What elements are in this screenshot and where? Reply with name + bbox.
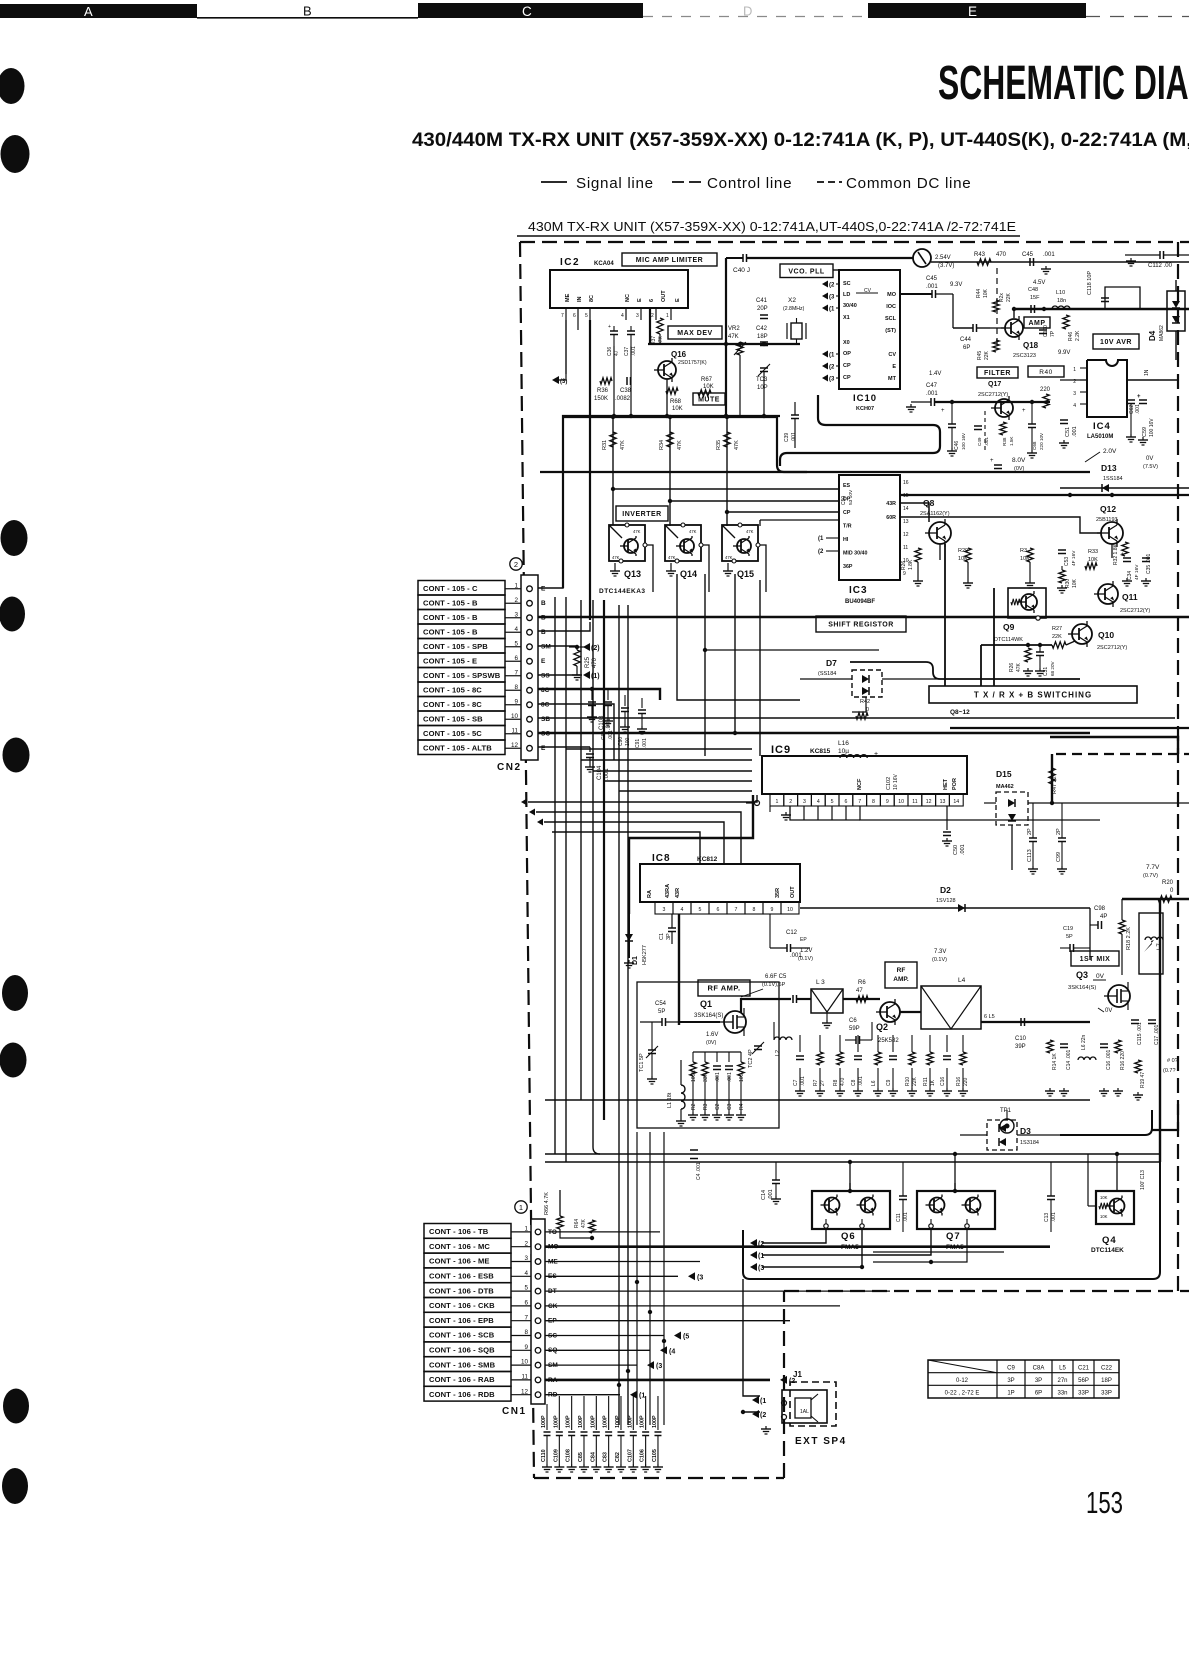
svg-text:EP: EP [800, 937, 807, 943]
svg-text:X0: X0 [843, 340, 850, 346]
boxed label INVERTER [616, 506, 668, 521]
svg-text:(1: (1 [758, 1253, 764, 1260]
svg-text:1: 1 [775, 799, 778, 805]
transistor Q18 [1001, 316, 1039, 359]
svg-text:1: 1 [666, 313, 669, 319]
svg-text:MA862: MA862 [1159, 325, 1165, 341]
schematic header text [528, 220, 1016, 234]
svg-text:47: 47 [614, 350, 620, 356]
svg-text:0-12: 0-12 [956, 1378, 969, 1384]
svg-text:C39: C39 [784, 433, 790, 442]
svg-text:R26: R26 [1009, 663, 1015, 672]
svg-text:47: 47 [856, 988, 863, 994]
IC4 box [1087, 360, 1127, 440]
wire bold rails right 728 737 [950, 728, 1189, 754]
wires q8 q12 cluster [913, 544, 1151, 593]
svg-text:MAX DEV: MAX DEV [677, 330, 712, 337]
svg-text:33P: 33P [1078, 1391, 1089, 1397]
svg-text:.001: .001 [926, 391, 938, 397]
svg-text:(0.1V): (0.1V) [798, 956, 813, 962]
svg-text:47K: 47K [689, 529, 697, 534]
capacitor C40 J [726, 254, 913, 274]
svg-text:22K: 22K [1006, 292, 1012, 302]
IC10 label [853, 393, 877, 412]
svg-text:RA: RA [647, 890, 653, 898]
svg-text:HET: HET [943, 778, 949, 790]
svg-text:.001: .001 [727, 1072, 733, 1082]
svg-text:(0V): (0V) [706, 1040, 717, 1046]
svg-text:220: 220 [963, 1077, 969, 1086]
grid label D (faint) [643, 4, 868, 19]
bias component forest [793, 1035, 969, 1096]
svg-text:30/40: 30/40 [843, 303, 857, 309]
svg-text:R64: R64 [574, 1219, 580, 1228]
svg-text:CONT - 105 - E: CONT - 105 - E [423, 657, 477, 666]
svg-text:VCO. PLL: VCO. PLL [788, 268, 825, 275]
arrow (1 j1 [752, 1396, 766, 1405]
svg-text:LD: LD [843, 292, 850, 298]
capacitor C1 3P [659, 914, 676, 944]
svg-text:100P: 100P [640, 1415, 646, 1428]
wire CN1 top entry [538, 1185, 592, 1238]
svg-text:.001: .001 [1043, 252, 1055, 258]
svg-text:E: E [968, 4, 977, 19]
svg-text:KC815: KC815 [810, 748, 831, 755]
transistor Q16 [654, 350, 707, 382]
svg-text:22K: 22K [1052, 634, 1062, 640]
svg-text:2SC2712(Y): 2SC2712(Y) [1120, 608, 1150, 614]
svg-text:C84: C84 [590, 1452, 596, 1462]
diode D1 HSK277 [624, 914, 648, 968]
capacitor C13 [1044, 1162, 1057, 1232]
arrow (2 j1 [752, 1410, 766, 1419]
svg-text:2SC2712(Y): 2SC2712(Y) [1097, 645, 1127, 651]
svg-text:R6: R6 [858, 980, 866, 986]
transistor pack Q6 [812, 1183, 890, 1251]
trimmer TC3 10P [756, 364, 770, 391]
svg-text:100P: 100P [553, 1415, 559, 1428]
arrow (1) row7 [583, 671, 600, 680]
svg-text:.001: .001 [631, 346, 637, 356]
svg-text:2SA1162(Y): 2SA1162(Y) [920, 511, 950, 517]
resistor R64 47K [574, 1218, 595, 1233]
capacitor C37 .001 [624, 326, 637, 356]
svg-text:C4 .001: C4 .001 [696, 1162, 702, 1180]
wire bundle horizontals to IC8 area [528, 795, 757, 864]
wire rf mid horizontals [545, 1100, 1160, 1162]
svg-text:47K: 47K [581, 1218, 587, 1228]
svg-text:R35: R35 [716, 440, 722, 450]
svg-text:SC: SC [843, 281, 851, 287]
IC8 label [652, 853, 718, 864]
svg-text:1AL: 1AL [800, 1409, 809, 1415]
svg-text:R32 1.8K: R32 1.8K [1113, 543, 1119, 565]
inductor L2 [774, 1022, 792, 1056]
wire CN2 row7 to (1) [538, 674, 580, 676]
capacitor row C4 [690, 1150, 702, 1180]
connector J1 [782, 1370, 828, 1423]
voltage 4.5V [1033, 280, 1045, 286]
IC3 input arrows [818, 536, 839, 555]
svg-text:C9: C9 [1007, 1366, 1015, 1372]
boxed label 10V AVR [1093, 334, 1139, 349]
wire Q8 down to switch box [944, 544, 946, 686]
svg-text:8C: 8C [589, 295, 595, 302]
resistor R40 box [1028, 366, 1064, 408]
svg-text:4: 4 [1073, 403, 1076, 409]
svg-text:# 0?: # 0? [1167, 1058, 1178, 1064]
svg-text:10K: 10K [1072, 578, 1078, 588]
svg-text:H5K277: H5K277 [642, 945, 648, 965]
IC9 pin row [770, 794, 963, 806]
page title [938, 57, 1189, 110]
svg-text:AMP.: AMP. [893, 976, 909, 983]
svg-text:R45: R45 [977, 351, 983, 360]
svg-text:0: 0 [866, 707, 869, 713]
wire q5 right [931, 261, 1189, 263]
svg-text:47K: 47K [633, 529, 641, 534]
svg-text:0-22 , 2-72 E: 0-22 , 2-72 E [945, 1391, 980, 1397]
svg-text:+: + [990, 458, 994, 464]
svg-text:12: 12 [926, 799, 932, 805]
svg-text:(3: (3 [829, 295, 835, 301]
svg-text:0V: 0V [1105, 1008, 1112, 1014]
filter L4 [900, 977, 981, 1029]
arrow bundle c [537, 819, 543, 826]
registration bar C [418, 3, 643, 19]
wire q1 drain up [741, 999, 791, 1013]
svg-text:36P: 36P [843, 564, 853, 570]
capacitor C103 .001 [587, 689, 612, 730]
svg-text:VR2: VR2 [728, 326, 740, 332]
svg-text:10K: 10K [1088, 557, 1098, 563]
registration bar A [0, 4, 197, 19]
svg-text:.0082: .0082 [615, 396, 631, 402]
svg-text:C105: C105 [652, 1449, 658, 1462]
svg-text:68 20V: 68 20V [1050, 661, 1055, 676]
connector CN1 table [424, 1224, 558, 1402]
svg-text:OP: OP [843, 351, 851, 357]
trimmer TC2 [748, 1042, 764, 1068]
svg-text:6: 6 [649, 299, 655, 302]
capacitor C12 EP .001 [770, 914, 810, 959]
svg-text:R44: R44 [976, 289, 982, 298]
svg-text:R3: R3 [703, 1103, 709, 1110]
svg-text:6P: 6P [963, 345, 970, 351]
Q13 part number [599, 588, 646, 595]
svg-text:2P: 2P [1027, 828, 1033, 835]
svg-text:(2: (2 [760, 1412, 766, 1419]
diode D15 MA462 [984, 769, 1052, 870]
svg-text:2SC3123: 2SC3123 [1013, 353, 1036, 359]
svg-text:CONT - 105 - SPB: CONT - 105 - SPB [423, 642, 488, 651]
svg-text:18P: 18P [757, 334, 768, 340]
svg-text:CONT - 106 - RDB: CONT - 106 - RDB [429, 1390, 495, 1399]
transistor Q14 [665, 523, 709, 592]
svg-text:C50: C50 [953, 845, 959, 855]
svg-text:(1: (1 [639, 1393, 645, 1400]
capacitor C31 68 20V [1035, 645, 1055, 676]
svg-text:(4: (4 [669, 1348, 675, 1355]
svg-text:CONT - 105 - B: CONT - 105 - B [423, 599, 478, 608]
IC8 box [640, 864, 800, 902]
svg-text:6: 6 [573, 313, 576, 319]
svg-text:ME: ME [565, 293, 571, 302]
arrow bundle a [521, 799, 527, 806]
svg-text:D7: D7 [826, 658, 837, 668]
svg-text:7P: 7P [1050, 330, 1056, 337]
svg-text:39P: 39P [1015, 1044, 1026, 1050]
wire CN2 row9 [538, 704, 614, 760]
svg-text:10K: 10K [983, 288, 989, 298]
svg-text:L2: L2 [775, 1050, 781, 1056]
wire CN2 row12 [538, 746, 590, 748]
node marker (1) [515, 1201, 527, 1213]
svg-text:(0.1V),6P: (0.1V),6P [762, 982, 786, 988]
svg-text:(ST): (ST) [885, 328, 896, 334]
svg-text:6.6F C5: 6.6F C5 [765, 974, 787, 980]
svg-text:J1: J1 [793, 1370, 802, 1379]
wire CN2 row4 stub [538, 622, 590, 631]
svg-text:CONT - 106 - EPB: CONT - 106 - EPB [429, 1316, 494, 1325]
svg-text:2SC2712(Y): 2SC2712(Y) [978, 392, 1008, 398]
svg-text:A: A [84, 4, 93, 19]
header underline [517, 235, 1020, 237]
svg-text:100: 100 [625, 737, 631, 746]
svg-text:.001: .001 [1072, 426, 1078, 437]
svg-text:C91: C91 [635, 739, 641, 748]
svg-text:Q1: Q1 [700, 999, 712, 1009]
svg-text:C83: C83 [603, 1452, 609, 1462]
svg-text:SCL: SCL [885, 316, 897, 322]
wire jog 662 [850, 662, 1080, 679]
svg-text:3: 3 [636, 313, 639, 319]
capacitor C44 6P [953, 324, 990, 351]
svg-text:.001: .001 [1135, 404, 1141, 414]
transistor Q11 [1094, 581, 1150, 614]
crystal X2 [783, 297, 806, 344]
svg-text:CONT - 105 - 5C: CONT - 105 - 5C [423, 729, 482, 738]
svg-text:10V AVR: 10V AVR [1100, 339, 1132, 346]
capacitor C48 15F [1028, 287, 1040, 313]
IC8 internal labels [647, 884, 796, 898]
svg-text:C45: C45 [926, 276, 938, 282]
CN1 row wires [545, 1232, 1050, 1400]
svg-text:C34: C34 [1127, 571, 1133, 580]
header rule between A and C [197, 17, 418, 19]
wire stubs to rail [614, 334, 764, 416]
wire q18 base [990, 309, 1014, 328]
svg-text:C11: C11 [896, 1213, 902, 1222]
IC10 input arrows [822, 281, 839, 383]
svg-text:D13: D13 [1101, 463, 1117, 473]
svg-text:T/R: T/R [843, 524, 852, 530]
IC3 box [839, 475, 900, 580]
svg-text:SHIFT REGISTOR: SHIFT REGISTOR [828, 622, 894, 629]
svg-text:5: 5 [831, 799, 834, 805]
voltage 9.9V [1058, 350, 1070, 356]
svg-text:(2: (2 [829, 283, 835, 289]
svg-text:R4: R4 [739, 1103, 745, 1110]
wire Q9 verticals [981, 588, 994, 686]
svg-text:Q12: Q12 [1100, 504, 1116, 514]
svg-text:10K: 10K [703, 384, 714, 390]
svg-text:IC10: IC10 [853, 393, 877, 404]
resistor R47 22 [1049, 768, 1058, 794]
svg-text:C16: C16 [940, 1077, 946, 1086]
transistor pack Q7 [917, 1183, 995, 1251]
svg-text:R37: R37 [651, 336, 657, 345]
resistor R26 47K [1009, 648, 1033, 676]
svg-text:R40: R40 [1039, 369, 1052, 376]
capacitor C11 [896, 1162, 909, 1232]
svg-text:Q9: Q9 [1003, 622, 1015, 632]
capacitor C46 100 16V [941, 402, 966, 456]
resistor R33 10K [1085, 549, 1098, 569]
svg-text:R8: R8 [833, 1079, 839, 1086]
svg-text:TC1 5P: TC1 5P [639, 1053, 645, 1072]
wire ic4 out [1060, 369, 1178, 380]
svg-text:R42: R42 [860, 699, 870, 705]
diode D4 box [1148, 280, 1185, 341]
svg-text:Q17: Q17 [988, 381, 1001, 388]
wire IC3 60R to Q12 [899, 517, 1101, 533]
svg-text:R46: R46 [1068, 332, 1074, 341]
svg-text:C90: C90 [618, 737, 624, 746]
svg-text:C100: C100 [1043, 325, 1049, 337]
svg-text:CONT - 106 - CKB: CONT - 106 - CKB [429, 1301, 495, 1310]
svg-text:3P: 3P [1035, 1378, 1042, 1384]
connector CN1 strip [531, 1219, 545, 1404]
svg-text:4.5V: 4.5V [1033, 280, 1045, 286]
transistor Q17 [978, 381, 1013, 420]
subtitle [412, 129, 1189, 151]
svg-text:C7: C7 [793, 1079, 799, 1086]
svg-text:16: 16 [903, 480, 909, 486]
boxed label MUTE [693, 393, 725, 405]
svg-text:C106: C106 [640, 1449, 646, 1462]
capacitor C99 2P [1056, 803, 1067, 874]
svg-text:33K: 33K [703, 1072, 709, 1082]
diode D2 1SV128 [800, 885, 1090, 912]
svg-text:C41: C41 [756, 298, 768, 304]
label 0V q3 [1098, 1008, 1112, 1014]
svg-text:TC3: TC3 [756, 377, 768, 383]
svg-text:E: E [541, 658, 546, 665]
svg-text:2: 2 [514, 560, 518, 569]
svg-text:SS: SS [541, 673, 550, 680]
boxed label RF AMP [698, 980, 750, 996]
arrow (2) q6 [750, 1239, 764, 1248]
svg-text:E: E [541, 745, 546, 752]
capacitor table [928, 1360, 1119, 1398]
svg-text:22K: 22K [984, 350, 990, 360]
transistor Q2 [843, 999, 900, 1044]
svg-text:3SK164(S): 3SK164(S) [1068, 985, 1096, 991]
svg-text:4F 16V: 4F 16V [1134, 564, 1140, 580]
svg-text:CV: CV [888, 352, 896, 358]
svg-text:R66 4.7K: R66 4.7K [544, 1192, 550, 1215]
svg-text:INVERTER: INVERTER [622, 511, 661, 518]
inductor L16 10u [838, 740, 899, 790]
svg-text:(1): (1) [591, 673, 600, 680]
svg-text:6: 6 [844, 799, 847, 805]
diode D13 1SS184 [1060, 456, 1189, 492]
IC8 pin row [655, 902, 799, 914]
transistor Q12 [1096, 504, 1123, 547]
resistor R67 10K [698, 377, 714, 396]
svg-text:9: 9 [903, 571, 906, 577]
svg-text:47K: 47K [734, 440, 740, 450]
svg-text:18n: 18n [1057, 298, 1066, 304]
svg-text:9.3V: 9.3V [950, 282, 962, 288]
svg-text:3SK164(S): 3SK164(S) [694, 1013, 723, 1019]
svg-text:(1: (1 [829, 307, 835, 313]
svg-text:(0.1V): (0.1V) [932, 957, 947, 963]
svg-text:.001: .001 [903, 1212, 909, 1222]
svg-text:100P: 100P [566, 1415, 572, 1428]
wire D15 right bold [1050, 754, 1189, 805]
svg-text:7: 7 [735, 907, 738, 913]
svg-text:MID 30/40: MID 30/40 [843, 551, 867, 557]
svg-text:KCA04: KCA04 [594, 261, 614, 267]
wire bold bus to IC8 [629, 795, 753, 914]
svg-text:R31: R31 [602, 440, 608, 450]
svg-text:20P: 20P [757, 306, 768, 312]
svg-text:7: 7 [858, 799, 861, 805]
svg-text:CP: CP [843, 510, 851, 516]
wire q17 rail extend [950, 400, 1050, 404]
capacitor C36 47 [607, 324, 620, 356]
diode D3 1SS184 [960, 1120, 1060, 1150]
svg-text:C99: C99 [1056, 852, 1062, 862]
header dashes right [1086, 16, 1189, 18]
svg-text:7.7V: 7.7V [1146, 864, 1160, 871]
svg-text:CONT - 106 - TB: CONT - 106 - TB [429, 1227, 489, 1236]
svg-text:Q11: Q11 [1122, 592, 1138, 602]
wires into Q6 Q7 [848, 1152, 1119, 1206]
capacitor C50 [841, 489, 854, 505]
svg-text:C59: C59 [1142, 427, 1148, 437]
svg-text:D2: D2 [940, 885, 951, 895]
page number 153 [1086, 1485, 1123, 1520]
wire IC3 connections [611, 487, 839, 526]
svg-text:1SV128: 1SV128 [936, 898, 956, 904]
svg-text:C31: C31 [1043, 667, 1049, 676]
svg-text:1: 1 [1073, 367, 1076, 373]
svg-text:C89: C89 [601, 731, 607, 740]
svg-text:CONT - 105 - B: CONT - 105 - B [423, 613, 478, 622]
svg-text:1: 1 [519, 1203, 523, 1212]
svg-text:10 16V: 10 16V [893, 773, 899, 790]
wire IC3 43R to Q8 [899, 503, 929, 522]
svg-text:C54: C54 [655, 1001, 667, 1007]
capacitor C59 100 16V [1137, 394, 1155, 445]
wire vco to amp bold [833, 269, 839, 271]
svg-text:C47: C47 [926, 383, 938, 389]
svg-text:CONT - 106 - MC: CONT - 106 - MC [429, 1242, 490, 1251]
svg-text:CONT - 105 - ALTB: CONT - 105 - ALTB [423, 744, 492, 753]
resistor R68 10K [666, 388, 683, 412]
svg-text:43RA: 43RA [665, 884, 671, 898]
svg-text:CN1: CN1 [502, 1406, 527, 1417]
svg-text:53 10V: 53 10V [848, 489, 854, 505]
diode D7 1SS184 [800, 658, 940, 712]
svg-text:2.0V: 2.0V [1103, 448, 1117, 455]
right column components [1045, 1020, 1160, 1100]
svg-text:(3: (3 [656, 1363, 662, 1370]
svg-text:5P: 5P [1066, 934, 1073, 940]
